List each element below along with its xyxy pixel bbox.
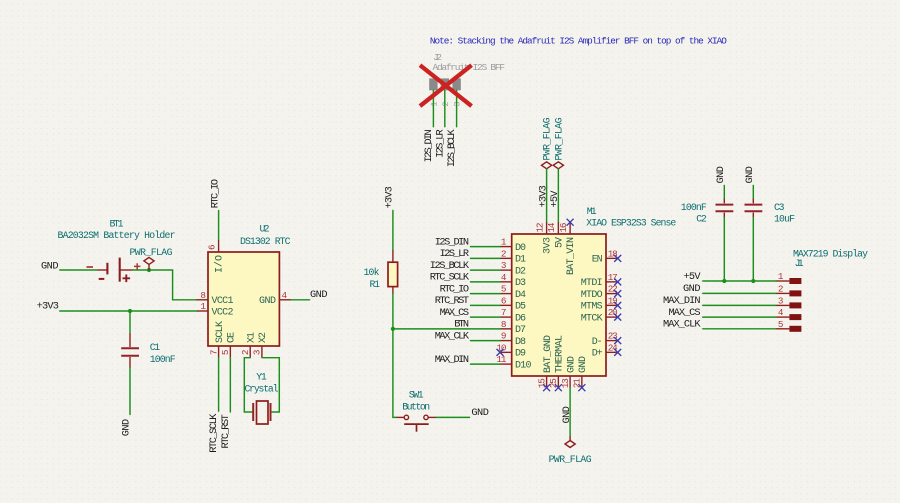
svg-text:R1: R1: [370, 279, 381, 290]
svg-text:5: 5: [220, 350, 231, 356]
svg-text:MAX7219 Display: MAX7219 Display: [793, 249, 868, 260]
junction C3/+5V: [751, 279, 755, 283]
connector J2 (DNP): [429, 52, 505, 107]
svg-text:X2: X2: [258, 332, 269, 343]
svg-text:M1: M1: [587, 206, 597, 217]
M1 pin 1 D0: [500, 246, 512, 248]
M1 pin 21 GND: [581, 376, 583, 388]
wire J2 pin3 down: [456, 90, 458, 127]
svg-text:100nF: 100nF: [681, 202, 707, 213]
svg-text:Crystal: Crystal: [245, 384, 279, 395]
wire GND to J1 pin2: [703, 292, 776, 294]
svg-text:EN: EN: [592, 255, 603, 266]
J1 pin 1: [789, 278, 801, 284]
svg-text:RTC_RST: RTC_RST: [435, 295, 469, 307]
svg-text:1: 1: [778, 271, 784, 282]
crystal Y1: [245, 372, 279, 425]
svg-text:10uF: 10uF: [774, 213, 795, 224]
wire RTC_IO to U2 pin 6: [218, 211, 220, 241]
wire C1 bottom: [129, 368, 131, 415]
svg-text:2: 2: [240, 350, 251, 356]
junction C2/+5V: [722, 279, 726, 283]
power flag PWR_FLAG (battery): [130, 247, 173, 270]
svg-text:6: 6: [206, 244, 217, 250]
svg-text:GND: GND: [41, 260, 59, 272]
M1 pin 6 D5: [500, 304, 512, 306]
J1 pin 4: [789, 314, 801, 320]
svg-text:THERMAL: THERMAL: [555, 335, 566, 373]
svg-text:D10: D10: [515, 360, 532, 371]
DNP cross on J2: [422, 67, 470, 105]
svg-text:RTC_SCLK: RTC_SCLK: [430, 272, 470, 284]
wire +3V3 to U2 VCC2: [60, 310, 197, 312]
BT1 positive plate: [119, 258, 121, 282]
svg-text:SW1: SW1: [409, 389, 424, 400]
svg-text:D5: D5: [515, 302, 526, 313]
wire C3 down to +5V row: [752, 218, 754, 282]
BT1 small plus: [134, 263, 140, 269]
wire +5V to J1 pin1: [703, 280, 776, 282]
switch SW1: [397, 389, 436, 431]
wire C2 down to +5V row: [723, 218, 725, 282]
svg-text:GND: GND: [578, 356, 589, 373]
wire GND to C2: [723, 186, 725, 199]
svg-text:3: 3: [501, 260, 507, 271]
svg-text:GND: GND: [310, 289, 328, 301]
svg-text:PWR_FLAG: PWR_FLAG: [130, 247, 173, 258]
U2 pin 1 VCC2: [197, 310, 208, 312]
U2 pin 4 GND: [279, 299, 291, 301]
svg-text:5V: 5V: [554, 237, 565, 248]
svg-text:RTC_RST: RTC_RST: [220, 414, 232, 448]
svg-text:GND: GND: [561, 406, 573, 424]
svg-text:14: 14: [546, 222, 557, 232]
wire X2 to crystal: [262, 358, 279, 412]
wire I2S_DIN to D0: [471, 246, 501, 248]
M1 pin 16 BAT_VIN: [569, 222, 571, 234]
no-connect X on THERMAL: [555, 384, 562, 391]
connector J1 MAX7219 Display: [776, 249, 869, 332]
svg-text:4: 4: [501, 272, 507, 283]
no-connect X on MTCK: [614, 314, 621, 321]
M1 pin 19 MTMS: [606, 304, 618, 306]
IC U2 DS1302 RTC: [196, 224, 291, 358]
svg-text:GND: GND: [566, 356, 577, 373]
svg-text:+3V3: +3V3: [384, 186, 396, 208]
svg-text:12: 12: [534, 223, 545, 233]
svg-text:+3V3: +3V3: [537, 185, 549, 207]
no-connect X on MTMS: [614, 302, 621, 309]
capacitor C1: [121, 334, 176, 369]
wire R1 down to SW1 corner: [393, 294, 397, 417]
capacitor C3: [745, 199, 796, 225]
wire PWR_FLAG to 3V3 pin: [546, 169, 548, 223]
svg-text:C1: C1: [150, 342, 161, 353]
svg-text:5: 5: [501, 284, 507, 295]
no-connect X on D+: [614, 349, 621, 356]
svg-text:100nF: 100nF: [150, 354, 176, 365]
svg-text:D4: D4: [515, 290, 526, 301]
svg-text:BAT_GND: BAT_GND: [543, 335, 554, 373]
svg-text:3: 3: [778, 295, 784, 306]
U2 pin 8 VCC1: [196, 299, 208, 301]
svg-text:XIAO ESP32S3 Sense: XIAO ESP32S3 Sense: [586, 218, 676, 229]
junction BTN row: [391, 327, 395, 331]
U2 pin 5 CE: [229, 346, 231, 358]
M1 pin 23 D-: [606, 340, 618, 342]
svg-text:Note: Stacking the Adafruit I2: Note: Stacking the Adafruit I2S Amplifie…: [430, 36, 727, 47]
svg-text:RTC_IO: RTC_IO: [440, 283, 469, 295]
svg-text:2: 2: [778, 283, 784, 294]
BT1 big plus: [123, 275, 131, 283]
M1 pin 8 D7: [500, 328, 512, 330]
svg-text:Y1: Y1: [256, 372, 267, 383]
wire PWR_FLAG to 5V pin: [557, 169, 559, 223]
U2 pin 7 SCLK: [218, 346, 220, 358]
svg-text:J1: J1: [795, 258, 804, 269]
svg-text:D-: D-: [592, 337, 603, 348]
svg-text:7: 7: [501, 307, 507, 318]
no-connect X on BAT_VIN: [567, 219, 574, 226]
power flag PWR_FLAG (3V3 top): [542, 117, 553, 168]
svg-text:3: 3: [453, 102, 463, 107]
svg-text:MAX_CS: MAX_CS: [669, 307, 701, 319]
svg-text:4: 4: [282, 290, 288, 301]
wire MAX_CS to D6: [471, 316, 501, 318]
svg-text:+5V: +5V: [549, 190, 561, 208]
svg-text:BA2032SM Battery Holder: BA2032SM Battery Holder: [58, 230, 176, 241]
M1 pin 25 THERMAL: [557, 376, 559, 388]
resistor R1 10k: [364, 250, 398, 294]
BT1 left pin: [97, 269, 107, 271]
svg-text:PWR_FLAG: PWR_FLAG: [549, 454, 592, 465]
svg-text:MAX_CS: MAX_CS: [440, 307, 469, 319]
M1 pin 3 D2: [500, 269, 512, 271]
svg-text:RTC_SCLK: RTC_SCLK: [208, 413, 220, 453]
M1 pin 22 MTDO: [606, 293, 618, 295]
M1 pin 7 D6: [500, 316, 512, 318]
U2 body: [208, 252, 279, 346]
svg-text:SCLK: SCLK: [215, 321, 226, 343]
M1 body: [512, 234, 606, 376]
svg-text:D2: D2: [515, 266, 526, 277]
svg-text:D3: D3: [515, 278, 526, 289]
svg-text:I2S_DIN: I2S_DIN: [423, 129, 435, 162]
battery BT1: [58, 219, 176, 283]
M1 pin 10 D9: [500, 351, 512, 353]
svg-text:D1: D1: [515, 255, 526, 266]
svg-text:I2S_LR: I2S_LR: [440, 248, 469, 260]
wire U2 GND right: [291, 299, 310, 301]
power flag PWR_FLAG (5V top): [553, 117, 564, 168]
wire U2 SCLK down: [218, 358, 220, 412]
svg-text:GND: GND: [259, 296, 276, 307]
wire M1 GND13 down: [569, 388, 571, 436]
no-connect X on BAT_GND: [543, 384, 550, 391]
svg-text:2: 2: [441, 102, 451, 107]
svg-text:3V3: 3V3: [543, 237, 554, 254]
svg-text:I2S_BCLK: I2S_BCLK: [430, 260, 470, 272]
module M1 XIAO ESP32S3 Sense: [497, 206, 677, 391]
M1 pin 15 BAT_GND: [546, 376, 548, 388]
BT1 negative plate: [106, 263, 108, 275]
M1 pin 18 EN: [606, 257, 618, 259]
svg-text:8: 8: [501, 319, 507, 330]
svg-text:I2S_BCLK: I2S_BCLK: [446, 128, 458, 167]
svg-text:4: 4: [778, 307, 784, 318]
svg-text:+3V3: +3V3: [37, 301, 59, 313]
wire X1 to crystal: [244, 358, 252, 412]
svg-text:1: 1: [501, 237, 507, 248]
svg-text:Button: Button: [402, 401, 430, 412]
J1 pin 5: [789, 326, 801, 332]
M1 pin 9 D8: [500, 340, 512, 342]
svg-text:I2S_DIN: I2S_DIN: [435, 236, 469, 248]
capacitor C2: [681, 199, 734, 225]
wire I2S_BCLK to D2: [471, 269, 501, 271]
svg-text:GND: GND: [744, 166, 756, 184]
wire MAX_CS to J1 pin4: [703, 316, 776, 318]
BT1 right pin: [121, 269, 134, 271]
svg-text:MAX_DIN: MAX_DIN: [435, 354, 469, 366]
svg-text:MAX_CLK: MAX_CLK: [435, 330, 470, 342]
wire BTN from R1 rail to D7: [393, 328, 500, 330]
M1 pin 24 D+: [606, 351, 618, 353]
svg-text:VCC2: VCC2: [212, 307, 234, 318]
no-connect X on D9: [497, 349, 504, 356]
svg-text:13: 13: [560, 378, 571, 388]
svg-text:I2S_LR: I2S_LR: [434, 129, 446, 157]
svg-text:GND: GND: [683, 283, 701, 295]
svg-text:RTC_IO: RTC_IO: [209, 179, 221, 208]
wire RTC_RST to D5: [471, 304, 501, 306]
no-connect X on D-: [614, 337, 621, 344]
no-connect X on EN: [614, 255, 621, 262]
wire RTC_SCLK to D3: [471, 281, 501, 283]
M1 pin 17 MTDI: [606, 281, 618, 283]
wire +3V3 down to R1: [392, 211, 394, 251]
U2 pin 3 X2: [261, 346, 263, 358]
svg-text:1: 1: [200, 301, 206, 312]
wire J2 pin2 down: [444, 90, 446, 127]
svg-text:MTDO: MTDO: [581, 290, 603, 301]
svg-text:C2: C2: [696, 213, 707, 224]
wire MAX_CLK to J1 pin5: [703, 328, 776, 330]
M1 pin 5 D4: [500, 293, 512, 295]
svg-text:PWR_FLAG: PWR_FLAG: [542, 117, 553, 160]
M1 pin 20 MTCK: [606, 316, 618, 318]
svg-text:DS1302 RTC: DS1302 RTC: [240, 236, 291, 247]
wire I2S_LR to D1: [471, 257, 501, 259]
svg-text:1: 1: [429, 102, 439, 107]
svg-text:+5V: +5V: [684, 271, 702, 283]
svg-text:D+: D+: [592, 349, 603, 360]
svg-text:U2: U2: [260, 224, 270, 235]
svg-text:D9: D9: [515, 349, 526, 360]
svg-text:PWR_FLAG: PWR_FLAG: [553, 117, 564, 160]
no-connect X on MTDO: [614, 290, 621, 297]
BT1 big minus: [99, 278, 105, 280]
M1 pin 13 GND: [569, 376, 571, 388]
M1 pin 12 3V3: [546, 222, 548, 234]
svg-text:D0: D0: [515, 243, 526, 254]
svg-text:GND: GND: [121, 419, 133, 437]
wire U2 CE down: [229, 358, 231, 412]
BT1 small minus: [87, 266, 94, 268]
wire MAX_DIN to D10: [471, 363, 501, 365]
svg-text:8: 8: [200, 290, 206, 301]
svg-text:5: 5: [778, 319, 784, 330]
svg-text:I/O: I/O: [214, 255, 226, 273]
svg-text:BT1: BT1: [110, 219, 124, 230]
svg-text:9: 9: [501, 331, 507, 342]
wire C1 top: [129, 311, 131, 334]
wire J2 pin1 down: [432, 90, 434, 127]
J1 pin 3: [789, 302, 801, 308]
svg-text:D7: D7: [515, 325, 526, 336]
M1 pin 11 D10: [500, 363, 512, 365]
wire GND to battery: [60, 269, 97, 271]
U2 pin 2 X1: [249, 346, 251, 358]
M1 pin 2 D1: [500, 257, 512, 259]
svg-text:CE: CE: [227, 332, 238, 343]
no-connect X on GND21: [578, 384, 585, 391]
wire battery to U2 VCC1: [133, 270, 196, 300]
svg-text:10k: 10k: [364, 267, 380, 278]
svg-text:3: 3: [252, 350, 263, 356]
J1 pin 2: [789, 290, 801, 296]
junction battery/PWR_FLAG: [147, 268, 151, 272]
junction +3V3/C1: [128, 309, 132, 313]
svg-text:MTCK: MTCK: [581, 313, 603, 324]
power flag PWR_FLAG (bottom): [549, 436, 592, 465]
wire RTC_IO to D4: [471, 293, 501, 295]
svg-text:C3: C3: [774, 202, 785, 213]
svg-text:7: 7: [208, 350, 219, 356]
U2 pin 6 I/O: [218, 240, 220, 252]
wire MAX_CLK to D8: [471, 340, 501, 342]
svg-text:D8: D8: [515, 337, 526, 348]
svg-text:MAX_DIN: MAX_DIN: [663, 295, 701, 307]
svg-text:VCC1: VCC1: [212, 296, 234, 307]
svg-text:16: 16: [558, 223, 569, 233]
no-connect X on MTDI: [614, 278, 621, 285]
svg-text:BAT_VIN: BAT_VIN: [566, 237, 577, 275]
wire GND to C3: [752, 186, 754, 199]
svg-text:GND: GND: [471, 407, 489, 419]
svg-text:MAX_CLK: MAX_CLK: [663, 319, 701, 331]
svg-text:GND: GND: [715, 166, 727, 184]
svg-text:D6: D6: [515, 313, 526, 324]
wire SW1 to GND: [436, 416, 470, 418]
M1 pin 4 D3: [500, 281, 512, 283]
svg-text:2: 2: [501, 248, 507, 259]
svg-text:MTMS: MTMS: [581, 302, 603, 313]
M1 pin 14 5V: [557, 222, 559, 234]
svg-text:MTDI: MTDI: [581, 278, 603, 289]
wire MAX_DIN to J1 pin3: [703, 304, 776, 306]
svg-text:X1: X1: [246, 332, 257, 343]
svg-text:6: 6: [501, 295, 507, 306]
